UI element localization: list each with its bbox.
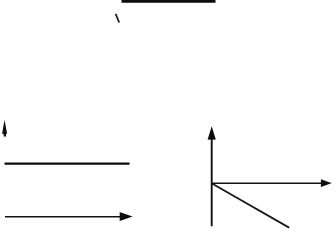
top line (122, 0, 216, 3)
horizontal line (left middle) (5, 163, 130, 165)
y-axis (208, 126, 216, 226)
small filled triangle (up arrowhead) (2, 120, 7, 137)
diagonal line (212, 184, 289, 228)
tick mark (backslash stroke) (116, 14, 120, 23)
x-axis (212, 179, 332, 187)
horizontal vector arrow (bottom left) (5, 212, 133, 221)
